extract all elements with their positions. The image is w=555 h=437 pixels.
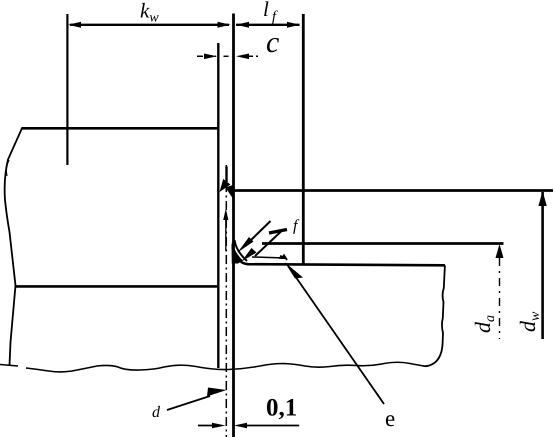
root marker down arrow	[225, 167, 227, 183]
svg-text:d: d	[152, 404, 161, 421]
f leader arrowhead upper	[238, 237, 254, 253]
shaft left break edge	[5, 128, 23, 366]
lf dimension line	[236, 24, 300, 26]
d leader arrowhead	[207, 388, 227, 397]
shaft top edge	[22, 127, 219, 130]
0,1 dimension left line	[198, 425, 218, 427]
kw dimension line	[70, 24, 229, 26]
kw left arrowhead	[68, 22, 81, 28]
0,1 dimension right line	[245, 425, 299, 427]
tick at end	[280, 255, 287, 261]
dg dash-dot tail	[499, 258, 501, 339]
0,1 right arrowhead	[234, 423, 247, 429]
c right arrowhead	[236, 54, 249, 60]
0,1 left arrowhead	[212, 423, 226, 429]
svg-text:e: e	[385, 406, 395, 431]
f leader upper diagonal	[251, 221, 271, 240]
hub right face V4	[302, 14, 305, 264]
c dimension dash-dot right	[247, 55, 258, 57]
f leader lower diagonal	[255, 232, 281, 257]
dw dimension line vertical	[541, 192, 544, 339]
extension line V1	[66, 14, 68, 165]
e leader arrowhead	[285, 262, 304, 279]
c left arrowhead	[204, 54, 217, 60]
e leader line	[293, 273, 384, 404]
root marker up arrow	[225, 213, 227, 251]
svg-text:c: c	[266, 26, 279, 59]
root horizontal thin line	[252, 257, 286, 258]
dw up arrowhead	[538, 191, 546, 206]
hub top edge	[238, 259, 445, 266]
dg extension line	[262, 242, 504, 245]
lf right arrowhead	[287, 22, 300, 28]
lf left arrowhead	[236, 22, 249, 28]
flange face line V2	[217, 43, 219, 368]
c dimension dash-dot left	[197, 55, 216, 57]
shaft lower edge	[15, 285, 219, 288]
gap centerline dash-dot	[225, 165, 227, 437]
plate line V3	[232, 14, 235, 437]
break edge knot	[6, 160, 9, 176]
dg up arrowhead	[496, 244, 504, 258]
d leader line	[167, 396, 210, 410]
weld root blob	[232, 242, 244, 264]
kw right arrowhead	[218, 22, 231, 28]
svg-text:0,1: 0,1	[266, 395, 297, 422]
f leader arrowhead lower	[242, 248, 257, 262]
dw extension line	[234, 189, 554, 192]
f leader stroke to label	[269, 230, 287, 234]
hub right edge with break	[424, 265, 445, 366]
wavy break line	[0, 365, 18, 367]
c dash in gap	[224, 55, 229, 57]
weld flank	[235, 240, 248, 261]
root marker second arrow to V3	[226, 185, 235, 201]
